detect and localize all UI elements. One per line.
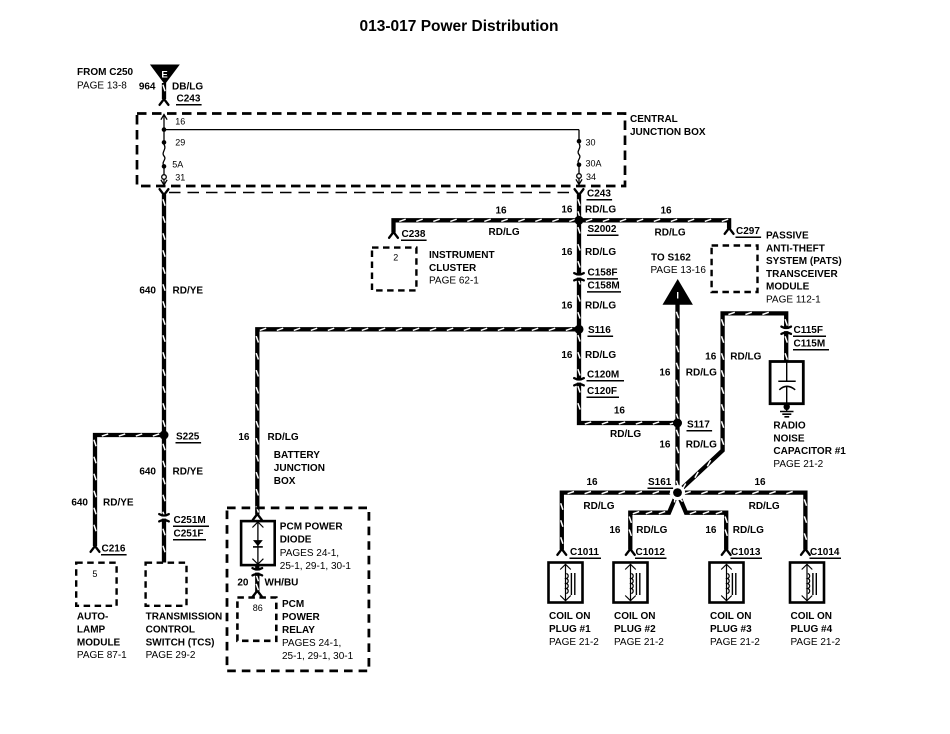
svg-text:MODULE: MODULE <box>77 637 121 648</box>
splice S225 <box>160 431 169 440</box>
svg-text:RADIO: RADIO <box>773 421 805 432</box>
connector C1012 <box>626 550 635 555</box>
diode arrows and element <box>252 522 263 564</box>
svg-text:PCM POWER: PCM POWER <box>280 522 344 533</box>
label PCM POWER DIODE <box>280 522 352 573</box>
wire S116 to C120M trunk <box>578 329 678 424</box>
splice fuse top left <box>162 140 167 145</box>
labels C158F C158M <box>587 268 621 292</box>
splice fuse top right <box>577 139 582 144</box>
svg-text:C1011: C1011 <box>570 547 599 558</box>
svg-text:PAGE 29-2: PAGE 29-2 <box>146 650 196 661</box>
svg-text:30: 30 <box>586 138 596 148</box>
wire triangle E to C243 <box>163 83 165 99</box>
label RADIO NOISE CAPACITOR #1 <box>773 421 846 470</box>
svg-text:RD/LG: RD/LG <box>730 352 761 363</box>
svg-text:AUTO-: AUTO- <box>77 612 108 623</box>
svg-text:PAGES 24-1,: PAGES 24-1, <box>282 638 341 649</box>
svg-text:PAGE 87-1: PAGE 87-1 <box>77 650 127 661</box>
svg-text:RD/LG: RD/LG <box>686 440 717 451</box>
box CENTRAL JUNCTION BOX <box>137 114 625 187</box>
svg-text:16: 16 <box>586 477 598 488</box>
label INSTRUMENT CLUSTER <box>429 250 495 287</box>
CJB right internal circuit <box>576 130 582 185</box>
svg-text:BOX: BOX <box>274 476 296 487</box>
label C1011 <box>570 547 602 558</box>
label 640 RD/YE upper <box>139 286 203 297</box>
svg-text:RD/YE: RD/YE <box>173 467 204 478</box>
svg-text:640: 640 <box>139 286 156 297</box>
svg-text:C115M: C115M <box>794 339 826 350</box>
svg-text:PAGE 62-1: PAGE 62-1 <box>429 276 479 287</box>
svg-text:2: 2 <box>393 253 398 263</box>
svg-text:I: I <box>676 291 679 302</box>
svg-text:TO S162: TO S162 <box>651 253 691 264</box>
wire C243 to S225 (640 RD/YE) <box>163 195 165 438</box>
svg-text:WH/BU: WH/BU <box>265 578 299 589</box>
svg-text:RD/LG: RD/LG <box>733 525 764 536</box>
label S225 <box>176 432 202 443</box>
svg-text:INSTRUMENT: INSTRUMENT <box>429 250 495 261</box>
svg-text:C251F: C251F <box>174 529 204 540</box>
svg-text:34: 34 <box>586 172 596 182</box>
label C1014 coil text <box>791 611 841 648</box>
svg-text:CAPACITOR #1: CAPACITOR #1 <box>773 446 846 457</box>
svg-text:BATTERY: BATTERY <box>274 450 320 461</box>
svg-text:DB/LG: DB/LG <box>172 82 203 93</box>
svg-text:PLUG #3: PLUG #3 <box>710 624 752 635</box>
svg-text:PAGE 21-2: PAGE 21-2 <box>710 637 760 648</box>
capacitor symbol <box>778 362 795 404</box>
connector C158F/C158M <box>574 273 584 281</box>
svg-text:PAGE 21-2: PAGE 21-2 <box>614 637 664 648</box>
svg-text:C238: C238 <box>402 229 426 240</box>
label 964 DB/LG <box>139 82 204 93</box>
svg-text:PAGE 13-16: PAGE 13-16 <box>651 265 707 276</box>
svg-text:25-1, 29-1, 30-1: 25-1, 29-1, 30-1 <box>282 651 354 662</box>
svg-text:E: E <box>161 70 167 81</box>
svg-text:RD/LG: RD/LG <box>686 368 717 379</box>
svg-text:29: 29 <box>175 138 185 148</box>
svg-text:S116: S116 <box>588 325 611 336</box>
label 16 RD/LG below S2002 <box>561 247 616 258</box>
svg-text:S225: S225 <box>176 432 200 443</box>
svg-text:RD/YE: RD/YE <box>173 286 204 297</box>
svg-text:CENTRAL: CENTRAL <box>630 114 678 125</box>
svg-text:964: 964 <box>139 82 156 93</box>
svg-text:C243: C243 <box>587 189 611 200</box>
svg-text:DIODE: DIODE <box>280 535 312 546</box>
coil symbol C1012 <box>625 564 640 601</box>
label 640 RD/YE branch <box>71 498 134 509</box>
labels C251M C251F <box>173 515 209 540</box>
connector BJB entry <box>253 515 262 520</box>
svg-text:PLUG #4: PLUG #4 <box>791 624 833 635</box>
svg-text:16: 16 <box>561 247 573 258</box>
svg-text:SYSTEM (PATS): SYSTEM (PATS) <box>766 256 842 267</box>
label 16 RD/LG below S116 <box>561 350 616 361</box>
svg-text:C120M: C120M <box>587 370 619 381</box>
connector C251M/C251F <box>159 514 169 522</box>
ground <box>780 404 794 417</box>
svg-text:C120F: C120F <box>587 386 617 397</box>
wire S161 to C1014 <box>678 492 807 550</box>
svg-text:C1014: C1014 <box>810 547 840 558</box>
label TO S162 <box>651 253 707 277</box>
svg-text:RD/LG: RD/LG <box>749 501 780 512</box>
CJB internal bus <box>164 129 579 131</box>
label C243 top <box>176 94 202 105</box>
splice pin16 node <box>162 127 167 132</box>
label C243 right <box>587 189 613 200</box>
label C1011 coil text <box>549 611 599 648</box>
label AUTO-LAMP MODULE <box>77 612 127 662</box>
svg-text:CONTROL: CONTROL <box>146 624 195 635</box>
box C1011 coil box <box>549 563 583 603</box>
wire S161 to C115F branch <box>678 312 788 492</box>
label 16 RD/LG tri-S117 <box>659 368 717 379</box>
svg-text:JUNCTION BOX: JUNCTION BOX <box>630 127 706 138</box>
label S117 <box>687 420 713 431</box>
svg-text:S161: S161 <box>648 477 672 488</box>
svg-text:RD/LG: RD/LG <box>610 429 641 440</box>
label 16 RD/LG battery feed <box>238 432 298 443</box>
box TRANSMISSION CONTROL SWITCH <box>146 563 187 606</box>
splice fuse bottom left <box>162 164 167 169</box>
connector relay entry <box>253 592 262 597</box>
svg-text:C115F: C115F <box>794 325 823 336</box>
svg-text:C1012: C1012 <box>636 547 666 558</box>
svg-text:MODULE: MODULE <box>766 282 810 293</box>
box PCM POWER RELAY <box>237 598 276 641</box>
S161 hub clearance <box>670 485 685 500</box>
label 16 RD/LG above S2002 <box>561 205 616 216</box>
label C1012 coil text <box>614 611 664 648</box>
svg-text:16: 16 <box>175 117 185 127</box>
label PATS MODULE <box>766 231 842 306</box>
box BATTERY JUNCTION BOX <box>227 508 369 671</box>
svg-text:PAGE 21-2: PAGE 21-2 <box>773 459 823 470</box>
svg-text:PASSIVE: PASSIVE <box>766 231 809 242</box>
wire S161 to C1011 <box>561 492 678 550</box>
svg-text:C158M: C158M <box>588 281 620 292</box>
svg-text:RD/LG: RD/LG <box>268 432 299 443</box>
wire triangle I to S117 <box>676 304 678 423</box>
splice S2002 <box>575 216 584 225</box>
label 640 RD/YE lower <box>139 467 203 478</box>
connector C243 left below CJB <box>160 189 169 194</box>
svg-text:POWER: POWER <box>282 612 321 623</box>
svg-text:JUNCTION: JUNCTION <box>274 463 325 474</box>
box PCM POWER DIODE <box>241 521 275 565</box>
svg-text:RD/LG: RD/LG <box>585 247 616 258</box>
svg-text:25-1, 29-1, 30-1: 25-1, 29-1, 30-1 <box>280 561 352 572</box>
box C1014 coil box <box>790 563 824 603</box>
svg-text:NOISE: NOISE <box>773 433 804 444</box>
label C1014 <box>810 547 842 558</box>
wire diode to relay (20 WH/BU) <box>256 565 258 591</box>
svg-text:PCM: PCM <box>282 599 304 610</box>
pin labels CJB <box>172 117 601 183</box>
coil symbol C1014 <box>802 564 817 601</box>
wire S2002 to C238 branch <box>394 219 580 232</box>
connector C1014 <box>801 550 810 555</box>
svg-text:ANTI-THEFT: ANTI-THEFT <box>766 243 825 254</box>
label 16 RD/LG S117-S161 <box>659 440 717 451</box>
svg-text:20: 20 <box>237 578 249 589</box>
svg-text:S117: S117 <box>687 420 710 431</box>
label 16 RD/LG to C1013 <box>705 525 764 536</box>
svg-text:RD/LG: RD/LG <box>489 227 520 238</box>
svg-text:PAGES 24-1,: PAGES 24-1, <box>280 548 339 559</box>
label S2002 <box>587 224 619 235</box>
svg-text:31: 31 <box>175 172 185 182</box>
svg-text:PLUG #2: PLUG #2 <box>614 624 656 635</box>
connector C1011 <box>557 550 566 555</box>
svg-text:16: 16 <box>561 301 573 312</box>
connector C243 top <box>160 100 169 105</box>
wire S116 to battery junction box <box>256 328 579 514</box>
connector C243 right below CJB <box>575 189 584 194</box>
connector C115F/C115M <box>781 327 791 335</box>
wire S225 branch to C216 <box>94 434 164 546</box>
label S161 <box>648 477 674 488</box>
svg-text:PAGE 13-8: PAGE 13-8 <box>77 81 127 92</box>
connector C297 <box>725 229 734 234</box>
svg-text:RD/LG: RD/LG <box>585 205 616 216</box>
label C216 <box>101 544 127 555</box>
svg-text:C243: C243 <box>177 94 201 105</box>
splice S116 <box>575 325 584 334</box>
svg-text:RD/LG: RD/LG <box>655 228 686 239</box>
svg-text:COIL ON: COIL ON <box>710 611 751 622</box>
connector C120M/C120F <box>574 378 584 386</box>
label 20 WH/BU <box>237 578 298 589</box>
svg-text:16: 16 <box>705 525 717 536</box>
label S116 <box>588 325 614 336</box>
splice S117 <box>673 419 682 428</box>
box C1013 coil box <box>710 563 744 603</box>
label 16 RD/LG above S116 <box>561 301 616 312</box>
svg-text:16: 16 <box>609 525 621 536</box>
box AUTO-LAMP MODULE <box>76 563 116 606</box>
connector C238 <box>389 233 398 238</box>
label PCM POWER RELAY <box>282 599 354 662</box>
off-page triangle I <box>663 279 693 305</box>
svg-text:C216: C216 <box>102 544 126 555</box>
label C238 <box>401 229 427 240</box>
CJB lower boundary dashed line <box>169 192 573 194</box>
svg-text:16: 16 <box>754 477 766 488</box>
label C1013 <box>731 547 763 558</box>
svg-text:C158F: C158F <box>588 268 618 279</box>
svg-text:LAMP: LAMP <box>77 624 106 635</box>
svg-text:86: 86 <box>253 603 263 613</box>
svg-text:SWITCH (TCS): SWITCH (TCS) <box>146 637 215 648</box>
svg-text:16: 16 <box>705 352 717 363</box>
svg-text:TRANSMISSION: TRANSMISSION <box>146 612 223 623</box>
label C297 <box>736 226 762 237</box>
svg-text:16: 16 <box>659 368 671 379</box>
splice S161 <box>673 488 682 497</box>
svg-text:30A: 30A <box>586 159 602 169</box>
svg-text:C1013: C1013 <box>731 547 761 558</box>
label TRANSMISSION CONTROL SWITCH <box>146 612 223 662</box>
svg-text:FROM C250: FROM C250 <box>77 67 134 78</box>
svg-text:640: 640 <box>71 498 88 509</box>
svg-text:COIL ON: COIL ON <box>549 611 590 622</box>
svg-text:CLUSTER: CLUSTER <box>429 263 477 274</box>
coil symbol C1011 <box>560 564 575 601</box>
svg-text:RD/YE: RD/YE <box>103 498 134 509</box>
svg-text:RELAY: RELAY <box>282 625 315 636</box>
svg-text:C251M: C251M <box>174 515 206 526</box>
svg-text:5A: 5A <box>172 160 183 170</box>
svg-text:16: 16 <box>561 350 573 361</box>
label FROM C250 <box>77 67 134 92</box>
svg-text:16: 16 <box>561 205 573 216</box>
svg-text:PAGE 21-2: PAGE 21-2 <box>791 637 841 648</box>
coil symbol C1013 <box>721 564 736 601</box>
label C1012 <box>635 547 667 558</box>
svg-text:RD/LG: RD/LG <box>583 501 614 512</box>
wire S225 to TCS <box>163 435 165 563</box>
box INSTRUMENT CLUSTER <box>372 248 416 291</box>
svg-text:013-017 Power Distribution: 013-017 Power Distribution <box>360 18 559 35</box>
box PATS TRANSCEIVER MODULE <box>712 246 758 293</box>
wire S161 to C1012 <box>629 493 677 550</box>
label CENTRAL JUNCTION BOX <box>630 114 706 138</box>
label 16 RD/LG to C1012 <box>609 525 667 536</box>
splice fuse bottom right <box>577 163 582 168</box>
connector C216 <box>91 547 100 552</box>
svg-text:16: 16 <box>495 206 507 217</box>
wire S161 to C1013 <box>678 493 728 550</box>
box RADIO NOISE CAPACITOR <box>770 362 803 404</box>
wire S2002 to C297 branch <box>579 219 729 228</box>
wire C243 to S2002 <box>578 195 580 221</box>
svg-text:COIL ON: COIL ON <box>614 611 655 622</box>
label 16 RD/LG cap branch <box>705 352 761 363</box>
wire S117 to S161 <box>676 423 678 493</box>
svg-text:COIL ON: COIL ON <box>791 611 832 622</box>
svg-text:C297: C297 <box>736 226 760 237</box>
off-page triangle E <box>150 65 180 85</box>
labels C120M C120F <box>587 370 625 398</box>
box C1012 coil box <box>614 563 648 603</box>
svg-text:RD/LG: RD/LG <box>636 525 667 536</box>
diode symbol <box>257 522 259 564</box>
svg-text:5: 5 <box>92 569 97 579</box>
label BATTERY JUNCTION BOX <box>274 450 325 487</box>
labels C115F C115M <box>793 325 829 350</box>
svg-text:16: 16 <box>614 406 626 417</box>
svg-text:16: 16 <box>659 440 671 451</box>
svg-text:PLUG #1: PLUG #1 <box>549 624 591 635</box>
wire S2002 to S116 trunk <box>578 220 580 329</box>
svg-text:S2002: S2002 <box>588 224 617 235</box>
connector diode-relay connector <box>253 568 263 576</box>
svg-text:RD/LG: RD/LG <box>585 301 616 312</box>
label C1013 coil text <box>710 611 760 648</box>
svg-text:640: 640 <box>139 467 156 478</box>
svg-text:16: 16 <box>660 206 672 217</box>
svg-text:16: 16 <box>238 432 250 443</box>
CJB left internal circuit <box>161 115 167 186</box>
svg-text:PAGE 21-2: PAGE 21-2 <box>549 637 599 648</box>
svg-text:TRANSCEIVER: TRANSCEIVER <box>766 269 838 280</box>
svg-text:PAGE 112-1: PAGE 112-1 <box>766 295 821 306</box>
svg-text:RD/LG: RD/LG <box>585 350 616 361</box>
connector C1013 <box>722 550 731 555</box>
